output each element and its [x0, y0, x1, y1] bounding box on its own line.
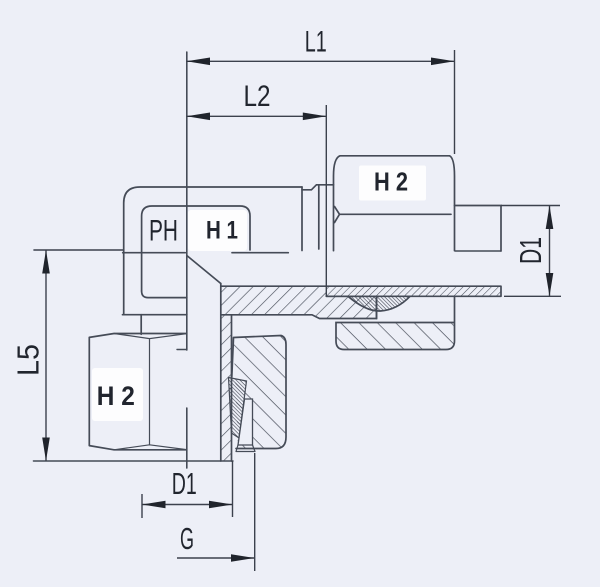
svg-text:D1: D1	[513, 237, 548, 264]
dimension L2 line	[187, 115, 327, 117]
arrow D1 bottom left	[142, 501, 166, 509]
dimension L2 extension	[325, 105, 327, 296]
body section hatch right branch	[221, 286, 377, 318]
bore funnel outline vertical branch	[238, 399, 253, 445]
label box H2 right	[359, 166, 426, 201]
nut H2 external outline vertical branch	[89, 334, 186, 450]
dimension D1 bottom line	[142, 504, 233, 506]
tube external top right branch	[455, 206, 502, 252]
nut H2 section outline right branch	[336, 296, 455, 349]
svg-text:L1: L1	[305, 26, 327, 59]
body outer contour top-left	[124, 185, 334, 315]
body hex inner contour H1	[142, 206, 250, 291]
dimension D1 right extensions	[501, 206, 561, 297]
dimension G extension	[254, 453, 256, 571]
bore flare outline vertical branch	[236, 445, 255, 452]
nut H2 section block right branch	[336, 323, 455, 350]
arrow G right	[231, 554, 255, 562]
dimension D1 bottom extensions	[142, 461, 233, 518]
tube end face line	[33, 460, 233, 462]
arrow L1 right	[431, 58, 455, 66]
dimension L1 line	[187, 60, 455, 62]
centerline vertical branch	[186, 52, 188, 468]
dimension G line	[177, 557, 255, 559]
arrow L5 bottom	[42, 438, 50, 462]
body block right face	[301, 187, 303, 251]
collar face line	[318, 185, 320, 249]
nut H2 section block vertical branch	[234, 336, 287, 449]
bore funnel void vertical branch	[238, 399, 253, 445]
nut H2 section outline vertical branch	[232, 336, 286, 449]
svg-text:L5: L5	[11, 344, 46, 376]
dimension D1 right line	[549, 206, 551, 297]
dimension L5 line	[45, 250, 47, 461]
body bottom face external	[123, 314, 187, 316]
arrow L2 right	[303, 113, 327, 121]
svg-text:H 2: H 2	[97, 381, 135, 411]
arrow D1 right top	[546, 206, 554, 230]
arrow L1 left	[187, 58, 211, 66]
dimension L1 right extension	[454, 50, 456, 154]
svg-text:PH: PH	[149, 215, 178, 248]
svg-text:H 2: H 2	[374, 167, 408, 197]
arrow L2 left	[187, 113, 211, 121]
svg-text:L2: L2	[244, 80, 271, 113]
ferrule wedge section vertical branch	[229, 378, 247, 439]
elbow inner chamfer diagonal	[187, 256, 221, 284]
tube wall section vertical branch	[221, 315, 232, 462]
svg-text:H 1: H 1	[206, 217, 238, 245]
arrow D1 bottom right	[209, 501, 233, 509]
label box H1	[188, 210, 247, 251]
ferrule dome section right branch	[348, 296, 410, 311]
tube wall section horizontal branch	[326, 286, 501, 296]
body hex inner lower-left arc	[142, 291, 187, 298]
label box H2 left	[92, 368, 143, 421]
tube wall outline horizontal branch	[221, 286, 501, 296]
body section outline right branch	[221, 296, 377, 318]
arrow L5 top	[42, 250, 50, 274]
nut H2 external outline right branch	[334, 156, 455, 251]
ferrule dome outline right branch	[348, 296, 410, 311]
svg-text:D1: D1	[172, 466, 197, 501]
arrow D1 right bottom	[546, 273, 554, 296]
body hex flat boundary line	[123, 252, 289, 254]
centerline tick	[177, 349, 187, 351]
body stud edge vertical branch	[140, 315, 142, 335]
tube wall outline vertical branch	[221, 284, 232, 462]
nut H2 flat boundary right branch	[335, 207, 452, 223]
nut H2 flat boundary vertical branch	[114, 334, 187, 450]
section division line right branch	[455, 250, 501, 252]
ferrule wedge outline vertical branch	[229, 378, 247, 439]
dimension L5 top extension	[33, 249, 123, 251]
svg-text:G: G	[180, 521, 194, 556]
